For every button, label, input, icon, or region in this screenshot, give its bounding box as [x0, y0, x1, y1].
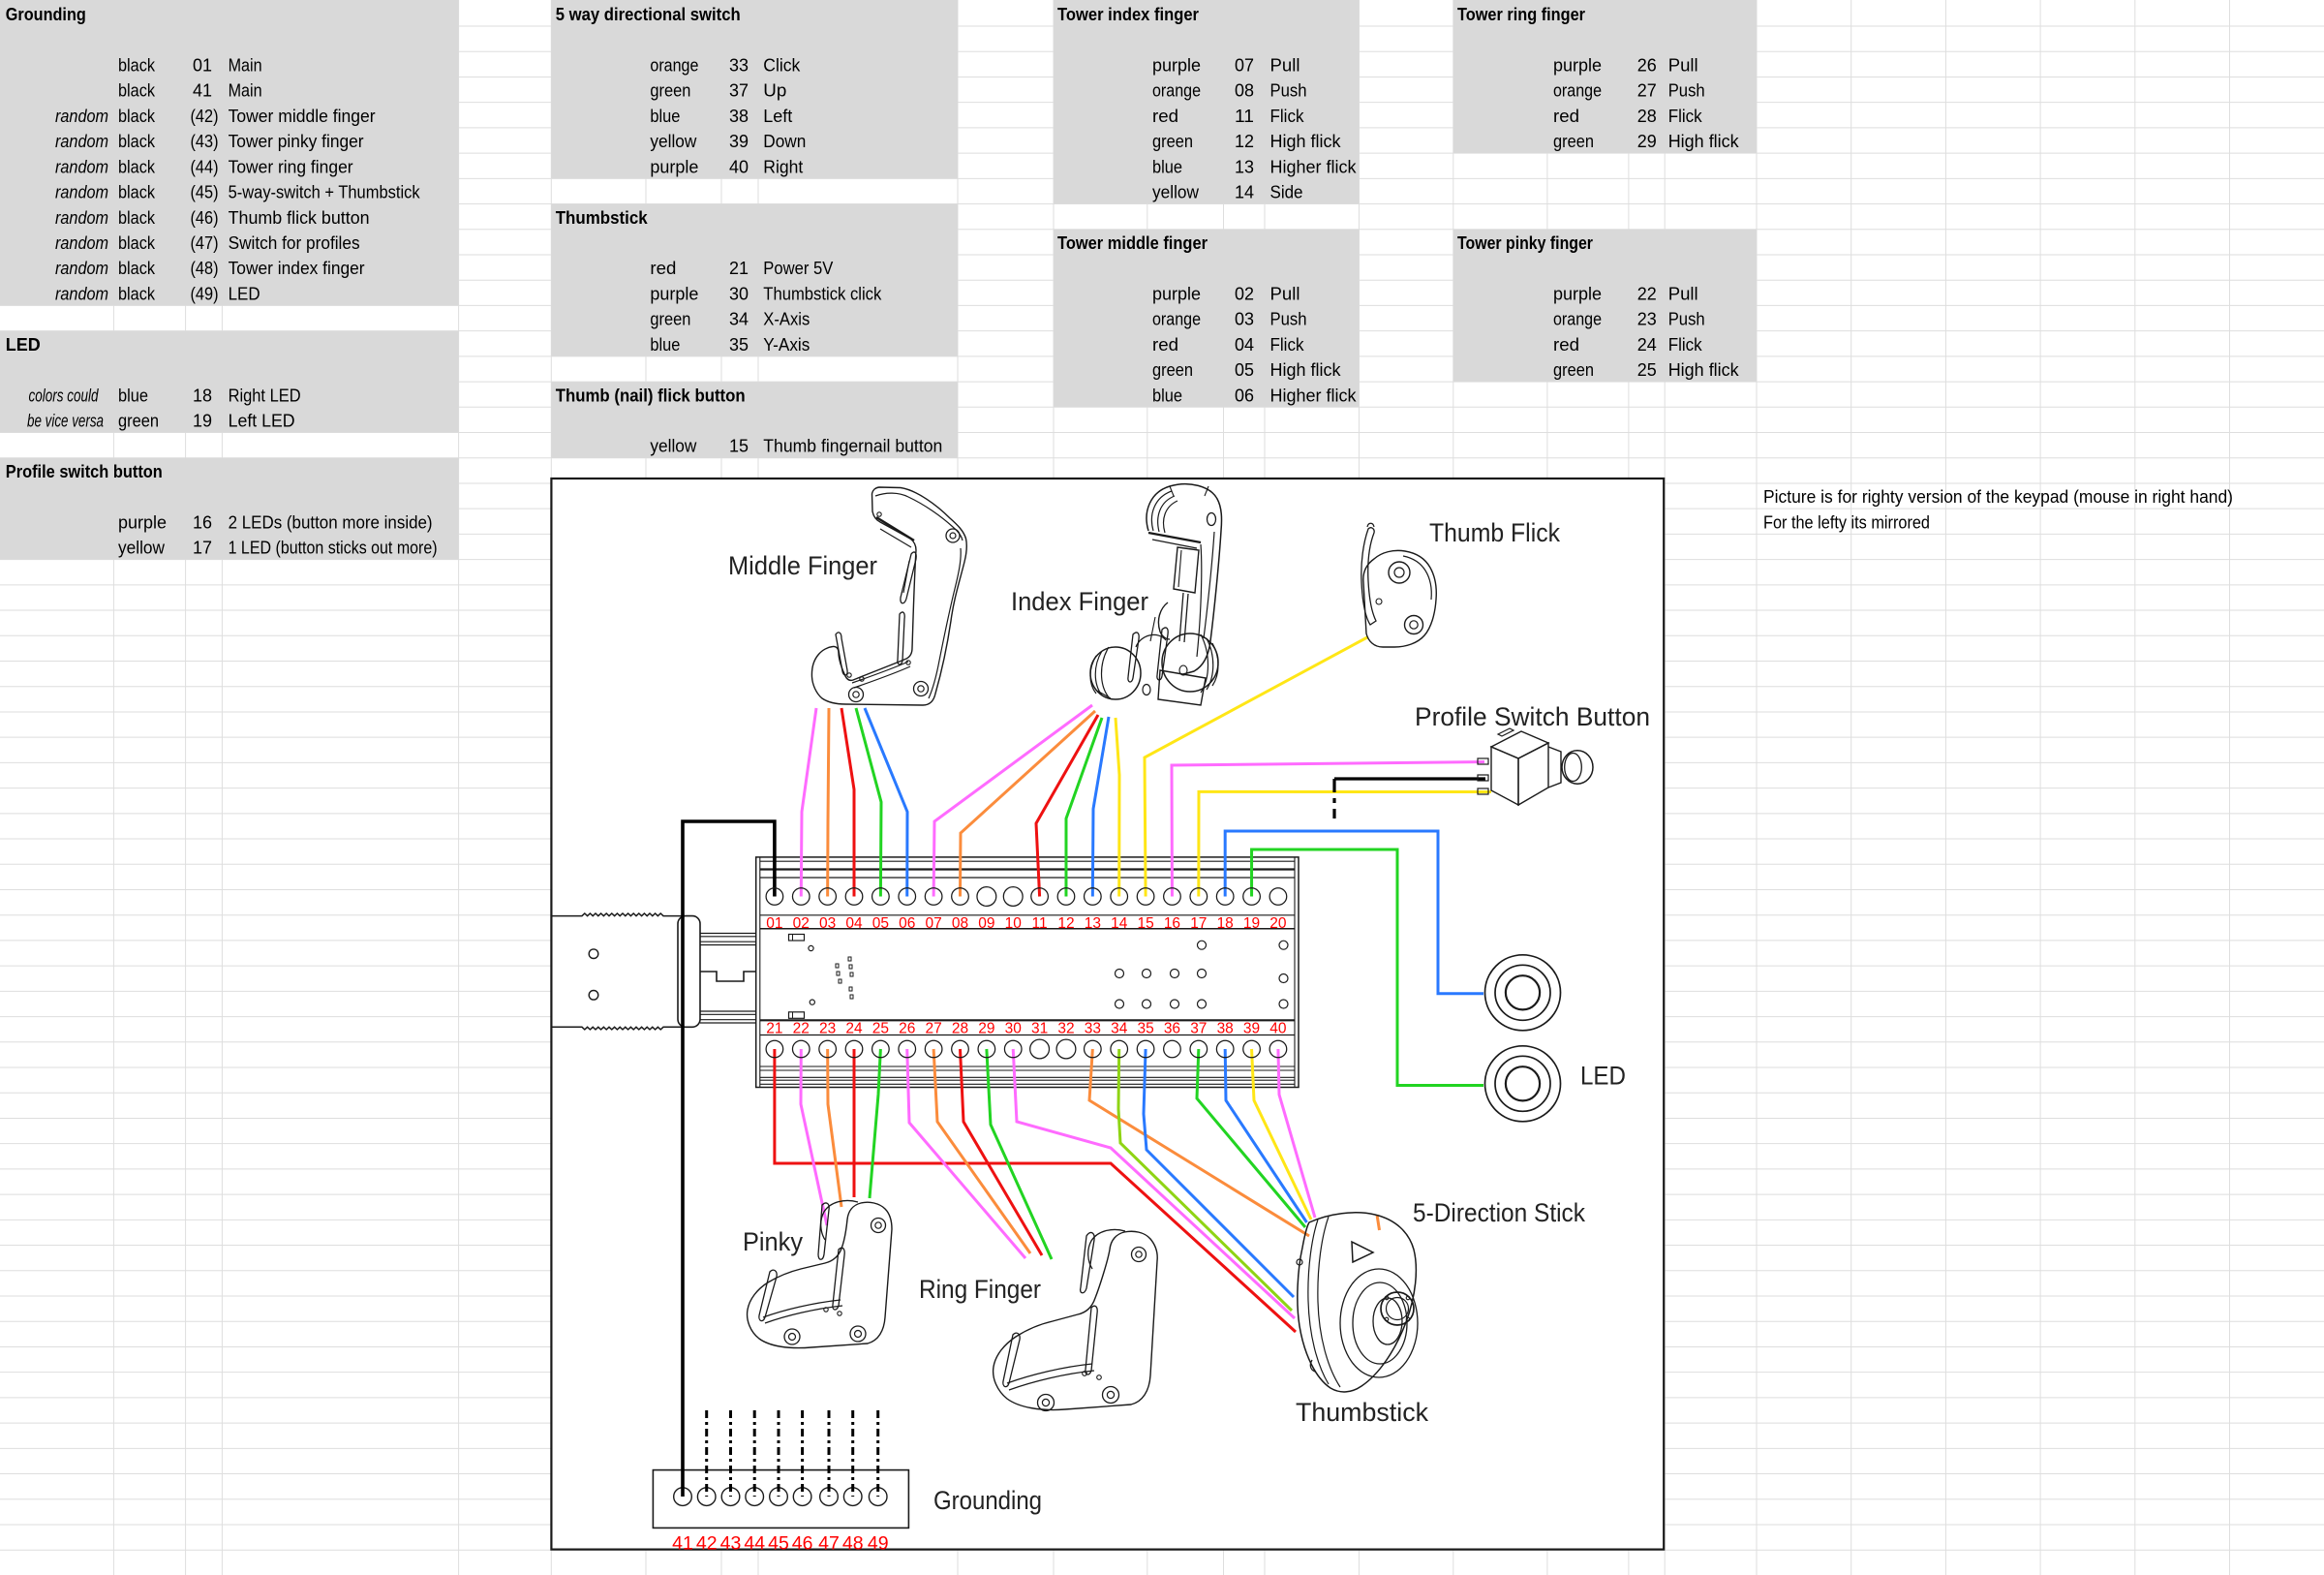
svg-text:22: 22	[1637, 283, 1657, 303]
wire 19 green left LED	[1252, 849, 1483, 1086]
svg-text:(48): (48)	[191, 258, 219, 278]
svg-text:purple: purple	[1152, 283, 1201, 303]
svg-text:45: 45	[768, 1533, 789, 1555]
PCB components on terminal strip	[789, 935, 1289, 1019]
svg-text:22: 22	[793, 1020, 810, 1036]
left LED	[1485, 1046, 1561, 1122]
svg-text:5 way directional switch: 5 way directional switch	[556, 4, 741, 24]
svg-text:25: 25	[1637, 359, 1657, 380]
svg-text:green: green	[650, 309, 690, 329]
svg-text:X-Axis: X-Axis	[763, 309, 810, 329]
svg-text:26: 26	[899, 1020, 915, 1036]
wire 06 blue middle higher flick	[865, 708, 907, 897]
svg-text:Tower middle finger: Tower middle finger	[229, 106, 376, 126]
svg-text:19: 19	[193, 411, 212, 431]
svg-text:(46): (46)	[191, 207, 219, 228]
svg-text:25: 25	[872, 1020, 889, 1036]
svg-text:08: 08	[1235, 80, 1254, 101]
wire 35 blue thumbstick y-axis	[1144, 1049, 1294, 1297]
svg-text:2 LEDs (button more inside): 2 LEDs (button more inside)	[229, 511, 433, 532]
svg-text:High flick: High flick	[1270, 359, 1342, 380]
wire 23 orange pinky push	[828, 1049, 841, 1207]
svg-text:blue: blue	[118, 385, 148, 405]
svg-text:purple: purple	[1553, 54, 1602, 75]
svg-text:Tower pinky finger: Tower pinky finger	[1457, 232, 1593, 253]
terminal pins bottom row 21-40	[766, 1039, 1287, 1059]
svg-text:42: 42	[696, 1533, 718, 1555]
svg-text:Flick: Flick	[1270, 334, 1305, 355]
svg-text:34: 34	[1111, 1020, 1128, 1036]
svg-text:41: 41	[193, 80, 212, 101]
wire black profile switch dangling ground	[1334, 777, 1485, 780]
svg-text:purple: purple	[118, 511, 167, 532]
svg-text:49: 49	[868, 1533, 889, 1555]
svg-text:27: 27	[1637, 80, 1657, 101]
svg-text:black: black	[118, 182, 156, 202]
svg-text:37: 37	[729, 80, 749, 101]
wire 28 red ring flick	[960, 1049, 1042, 1255]
svg-text:LED: LED	[1580, 1062, 1626, 1091]
wire 27 orange ring push	[933, 1049, 1030, 1253]
svg-text:Y-Axis: Y-Axis	[763, 334, 810, 355]
wire 02 purple middle pull	[801, 708, 816, 897]
svg-text:red: red	[1152, 334, 1178, 355]
svg-text:black: black	[118, 80, 156, 101]
wire 16 purple profile switch	[1172, 762, 1484, 897]
pinky tower component	[748, 1200, 892, 1347]
pin labels 01-20	[766, 915, 1287, 932]
svg-text:11: 11	[1032, 915, 1048, 932]
svg-text:green: green	[1553, 131, 1594, 151]
svg-text:48: 48	[842, 1533, 864, 1555]
svg-text:35: 35	[729, 334, 749, 355]
svg-text:Grounding: Grounding	[933, 1486, 1042, 1515]
svg-text:random: random	[55, 283, 108, 303]
wire 24 red pinky flick	[853, 1049, 856, 1197]
svg-text:black: black	[118, 131, 156, 151]
svg-text:Middle Finger: Middle Finger	[728, 551, 877, 580]
svg-text:06: 06	[1235, 385, 1254, 405]
svg-text:random: random	[55, 182, 108, 202]
svg-text:(44): (44)	[191, 156, 219, 176]
right LED	[1485, 955, 1561, 1031]
wire 14 yellow index side	[1116, 718, 1119, 897]
svg-text:03: 03	[819, 915, 836, 932]
svg-text:28: 28	[952, 1020, 968, 1036]
svg-text:Thumbstick click: Thumbstick click	[763, 283, 882, 303]
svg-text:20: 20	[1269, 915, 1287, 932]
svg-text:black: black	[118, 258, 156, 278]
svg-text:03: 03	[1235, 309, 1254, 329]
svg-text:Higher flick: Higher flick	[1270, 156, 1358, 176]
svg-text:33: 33	[1085, 1020, 1101, 1036]
svg-text:Main: Main	[229, 54, 262, 75]
pin labels 21-40	[766, 1020, 1287, 1036]
svg-text:Up: Up	[763, 80, 786, 101]
wire 33 orange 5-way click	[1089, 1049, 1309, 1236]
svg-text:5-Direction Stick: 5-Direction Stick	[1413, 1198, 1586, 1227]
svg-text:black: black	[118, 232, 156, 253]
svg-text:yellow: yellow	[118, 538, 166, 558]
svg-text:04: 04	[845, 915, 863, 932]
svg-text:32: 32	[1057, 1020, 1074, 1036]
grounding bar	[653, 1470, 908, 1529]
wire 26 purple ring pull	[907, 1049, 1025, 1258]
svg-text:random: random	[55, 207, 108, 228]
svg-text:23: 23	[1637, 309, 1657, 329]
svg-text:yellow: yellow	[650, 436, 697, 456]
svg-text:12: 12	[1235, 131, 1254, 151]
svg-text:orange: orange	[650, 54, 698, 75]
svg-text:Left: Left	[763, 106, 792, 126]
svg-text:green: green	[650, 80, 690, 101]
wire 22 purple pinky pull	[801, 1049, 827, 1225]
svg-text:10: 10	[1005, 915, 1023, 932]
svg-text:01: 01	[193, 54, 212, 75]
profile switch button component	[1478, 728, 1593, 805]
svg-text:Thumbstick: Thumbstick	[1296, 1398, 1429, 1427]
svg-text:red: red	[1152, 106, 1178, 126]
svg-text:11: 11	[1235, 106, 1254, 126]
index finger tower component	[1090, 484, 1222, 705]
svg-text:purple: purple	[1553, 283, 1602, 303]
svg-text:26: 26	[1637, 54, 1657, 75]
svg-text:08: 08	[952, 915, 968, 932]
svg-text:Flick: Flick	[1668, 334, 1703, 355]
thumb flick button component	[1361, 523, 1436, 647]
svg-text:orange: orange	[1152, 80, 1201, 101]
svg-text:random: random	[55, 106, 108, 126]
svg-text:blue: blue	[650, 334, 680, 355]
wire 04 red middle flick	[841, 708, 854, 897]
grounding terminals 41-49	[674, 1488, 887, 1506]
svg-text:31: 31	[1031, 1020, 1048, 1036]
svg-text:41: 41	[672, 1533, 693, 1555]
svg-text:(42): (42)	[191, 106, 219, 126]
svg-text:24: 24	[845, 1020, 863, 1036]
svg-text:05: 05	[1235, 359, 1254, 380]
svg-text:purple: purple	[650, 283, 698, 303]
wire 25 green pinky high flick	[870, 1049, 880, 1198]
svg-text:Grounding: Grounding	[6, 4, 86, 24]
svg-text:LED: LED	[6, 334, 41, 355]
svg-text:13: 13	[1085, 915, 1101, 932]
wire 12 green index high flick	[1066, 718, 1102, 897]
svg-text:Profile switch button: Profile switch button	[6, 461, 163, 481]
svg-text:black: black	[118, 283, 156, 303]
svg-text:green: green	[1152, 359, 1193, 380]
wire 15 yellow thumb flick button	[1145, 637, 1367, 897]
grounding stub wires (dashed)	[707, 1410, 878, 1497]
svg-text:Thumb (nail) flick button: Thumb (nail) flick button	[556, 385, 746, 405]
svg-text:purple: purple	[1152, 54, 1201, 75]
svg-text:purple: purple	[650, 156, 698, 176]
svg-text:orange: orange	[1553, 309, 1602, 329]
svg-text:Pull: Pull	[1668, 283, 1698, 303]
wire 38 blue 5-way left	[1225, 1049, 1306, 1222]
svg-text:47: 47	[818, 1533, 840, 1555]
wire 40 purple 5-way right	[1278, 1049, 1315, 1218]
svg-text:Thumb fingernail button: Thumb fingernail button	[763, 436, 942, 456]
svg-text:38: 38	[729, 106, 749, 126]
svg-text:Picture is for righty version: Picture is for righty version of the key…	[1763, 486, 2233, 507]
svg-text:Thumb Flick: Thumb Flick	[1429, 518, 1561, 547]
wire 21 red thumbstick power	[775, 1049, 1296, 1332]
svg-text:24: 24	[1637, 334, 1657, 355]
svg-text:30: 30	[1005, 1020, 1023, 1036]
svg-text:40: 40	[729, 156, 749, 176]
svg-text:Tower pinky finger: Tower pinky finger	[229, 131, 364, 151]
svg-text:black: black	[118, 106, 156, 126]
svg-text:38: 38	[1217, 1020, 1234, 1036]
svg-text:29: 29	[1637, 131, 1657, 151]
svg-text:Flick: Flick	[1668, 106, 1703, 126]
svg-text:18: 18	[1217, 915, 1234, 932]
svg-text:red: red	[650, 258, 676, 278]
svg-text:46: 46	[792, 1533, 813, 1555]
svg-text:13: 13	[1235, 156, 1254, 176]
svg-text:Index Finger: Index Finger	[1011, 587, 1148, 616]
wire 34 green thumbstick x-axis	[1118, 1049, 1292, 1311]
svg-text:black: black	[118, 54, 156, 75]
svg-text:16: 16	[1164, 915, 1180, 932]
svg-text:random: random	[55, 232, 108, 253]
svg-text:35: 35	[1137, 1020, 1153, 1036]
svg-text:black: black	[118, 156, 156, 176]
svg-text:06: 06	[899, 915, 915, 932]
svg-text:01: 01	[766, 915, 782, 932]
svg-text:Tower middle finger: Tower middle finger	[1057, 232, 1208, 253]
svg-text:Power 5V: Power 5V	[763, 258, 834, 278]
svg-text:44: 44	[744, 1533, 765, 1555]
svg-text:High flick: High flick	[1668, 131, 1740, 151]
svg-text:Higher flick: Higher flick	[1270, 385, 1358, 405]
wire 01 black main ground	[683, 821, 775, 1497]
svg-text:21: 21	[729, 258, 749, 278]
svg-text:02: 02	[1235, 283, 1254, 303]
svg-text:Click: Click	[763, 54, 801, 75]
svg-text:18: 18	[193, 385, 212, 405]
svg-text:15: 15	[1137, 915, 1153, 932]
svg-text:40: 40	[1269, 1020, 1287, 1036]
svg-text:Pull: Pull	[1668, 54, 1698, 75]
picture frame (diagram box)	[551, 479, 1664, 1550]
svg-text:Tower index finger: Tower index finger	[1057, 4, 1199, 24]
middle finger tower component	[811, 487, 966, 705]
svg-text:red: red	[1553, 334, 1579, 355]
svg-text:27: 27	[925, 1020, 941, 1036]
svg-text:17: 17	[1190, 915, 1207, 932]
svg-text:(49): (49)	[191, 283, 219, 303]
svg-text:04: 04	[1235, 334, 1254, 355]
wire 07 purple index pull	[933, 705, 1092, 897]
svg-text:Pull: Pull	[1270, 54, 1300, 75]
svg-text:33: 33	[729, 54, 749, 75]
svg-text:Tower ring finger: Tower ring finger	[1457, 4, 1585, 24]
svg-text:30: 30	[729, 283, 749, 303]
svg-text:random: random	[55, 258, 108, 278]
svg-text:Tower index finger: Tower index finger	[229, 258, 365, 278]
wire 05 green middle high flick	[856, 708, 881, 897]
svg-text:37: 37	[1190, 1020, 1207, 1036]
svg-text:Push: Push	[1668, 309, 1705, 329]
USB cable/connector	[551, 913, 756, 1030]
wire 03 orange middle push	[828, 708, 829, 897]
svg-text:Down: Down	[763, 131, 806, 151]
svg-text:21: 21	[766, 1020, 782, 1036]
svg-text:14: 14	[1235, 182, 1254, 202]
svg-text:17: 17	[193, 538, 212, 558]
wire 29 green ring high flick	[987, 1049, 1052, 1259]
svg-text:05: 05	[872, 915, 889, 932]
svg-text:Push: Push	[1270, 309, 1307, 329]
svg-text:LED: LED	[229, 283, 260, 303]
ring finger tower component	[994, 1229, 1158, 1410]
wire 37 green 5-way up	[1197, 1049, 1305, 1227]
svg-text:34: 34	[729, 309, 749, 329]
svg-text:43: 43	[720, 1533, 742, 1555]
grounding pin labels 41-49	[672, 1533, 888, 1555]
svg-text:Profile Switch Button: Profile Switch Button	[1415, 702, 1650, 731]
svg-text:be vice versa: be vice versa	[27, 411, 104, 431]
svg-text:16: 16	[193, 511, 212, 532]
svg-text:Push: Push	[1668, 80, 1705, 101]
svg-text:02: 02	[793, 915, 810, 932]
svg-text:Thumb flick button: Thumb flick button	[229, 207, 370, 228]
svg-text:Pinky: Pinky	[743, 1227, 804, 1256]
svg-text:random: random	[55, 131, 108, 151]
svg-text:Right: Right	[763, 156, 803, 176]
svg-text:red: red	[1553, 106, 1579, 126]
svg-text:(45): (45)	[191, 182, 219, 202]
svg-text:For the lefty its mirrored: For the lefty its mirrored	[1763, 511, 1930, 532]
svg-text:black: black	[118, 207, 156, 228]
svg-text:5-way-switch + Thumbstick: 5-way-switch + Thumbstick	[229, 182, 421, 202]
svg-text:Main: Main	[229, 80, 262, 101]
wire 17 yellow profile switch	[1199, 791, 1491, 896]
svg-text:1 LED (button sticks out more): 1 LED (button sticks out more)	[229, 538, 438, 558]
svg-text:blue: blue	[1152, 156, 1182, 176]
svg-text:green: green	[1152, 131, 1193, 151]
wire 39 yellow 5-way down	[1252, 1049, 1311, 1220]
wire 08 orange index push	[960, 711, 1095, 897]
svg-text:Switch for profiles: Switch for profiles	[229, 232, 360, 253]
svg-text:14: 14	[1111, 915, 1128, 932]
wire 30 purple thumbstick click	[1013, 1049, 1295, 1318]
svg-text:colors could: colors could	[29, 385, 100, 405]
svg-text:green: green	[1553, 359, 1594, 380]
svg-text:yellow: yellow	[1152, 182, 1200, 202]
svg-text:green: green	[118, 411, 159, 431]
svg-text:Flick: Flick	[1270, 106, 1305, 126]
svg-text:28: 28	[1637, 106, 1657, 126]
svg-text:07: 07	[925, 915, 941, 932]
svg-text:yellow: yellow	[650, 131, 697, 151]
svg-text:Left LED: Left LED	[229, 411, 295, 431]
svg-text:orange: orange	[1553, 80, 1602, 101]
svg-text:39: 39	[729, 131, 749, 151]
thumbstick / 5-direction stick component	[1297, 1213, 1418, 1392]
terminal strip (screw terminal block)	[756, 857, 1299, 1088]
svg-text:(43): (43)	[191, 131, 219, 151]
svg-text:blue: blue	[1152, 385, 1182, 405]
svg-text:36: 36	[1164, 1020, 1180, 1036]
svg-text:Ring Finger: Ring Finger	[919, 1275, 1041, 1304]
svg-text:Tower ring finger: Tower ring finger	[229, 156, 353, 176]
svg-text:39: 39	[1243, 1020, 1260, 1036]
svg-text:Thumbstick: Thumbstick	[556, 207, 649, 228]
stray orange mark	[1377, 1215, 1380, 1230]
svg-text:09: 09	[978, 915, 994, 932]
svg-text:Side: Side	[1270, 182, 1303, 202]
svg-text:orange: orange	[1152, 309, 1201, 329]
svg-text:12: 12	[1057, 915, 1074, 932]
svg-text:High flick: High flick	[1668, 359, 1740, 380]
svg-text:random: random	[55, 156, 108, 176]
svg-text:(47): (47)	[191, 232, 219, 253]
svg-text:23: 23	[819, 1020, 836, 1036]
terminal pins top row 01-20	[766, 887, 1287, 907]
svg-text:15: 15	[729, 436, 749, 456]
svg-text:19: 19	[1243, 915, 1260, 932]
svg-text:Pull: Pull	[1270, 283, 1300, 303]
wire 11 red index flick	[1036, 715, 1098, 897]
svg-text:29: 29	[978, 1020, 994, 1036]
svg-text:Right LED: Right LED	[229, 385, 301, 405]
svg-text:07: 07	[1235, 54, 1254, 75]
wire 18 blue right LED	[1225, 831, 1483, 994]
svg-text:blue: blue	[650, 106, 680, 126]
svg-text:High flick: High flick	[1270, 131, 1342, 151]
svg-text:Push: Push	[1270, 80, 1307, 101]
wire 13 blue index higher flick	[1092, 717, 1109, 897]
